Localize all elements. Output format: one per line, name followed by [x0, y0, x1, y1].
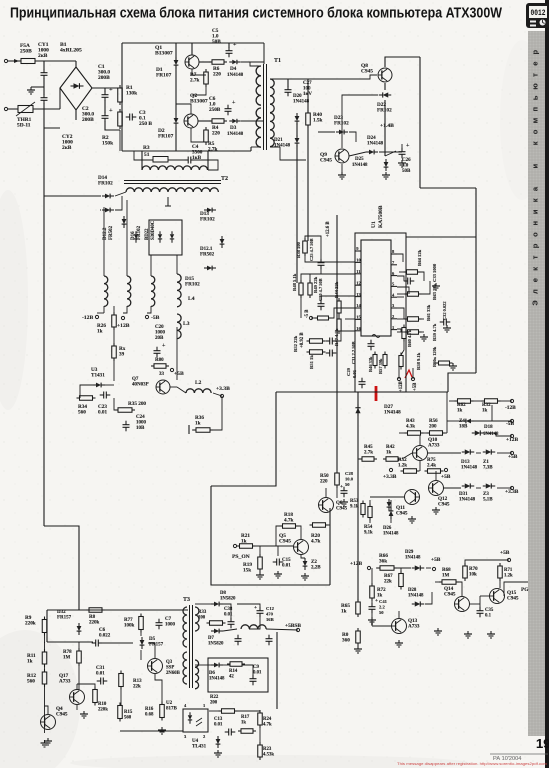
svg-text:817В: 817В [166, 707, 178, 712]
svg-text:R46 33k: R46 33k [368, 356, 373, 372]
svg-text:100: 100 [198, 616, 206, 621]
svg-text:н: н [531, 221, 540, 226]
svg-text:40N03Р: 40N03Р [132, 383, 149, 388]
svg-text:250 В: 250 В [139, 121, 152, 127]
svg-text:+0.92 В: +0.92 В [300, 332, 305, 348]
svg-text:А733: А733 [408, 624, 420, 630]
svg-text:130k: 130k [126, 91, 137, 97]
svg-text:R58 9.1k: R58 9.1k [416, 352, 421, 370]
svg-text:0.01: 0.01 [253, 671, 262, 676]
svg-text:360: 360 [342, 638, 350, 644]
svg-text:+: + [254, 605, 257, 611]
svg-text:51: 51 [144, 152, 150, 158]
svg-text:р: р [531, 243, 540, 248]
svg-text:R70: R70 [469, 567, 478, 572]
svg-text:о: о [531, 129, 540, 134]
svg-text:C38: C38 [224, 607, 233, 612]
svg-text:-5В: -5В [151, 315, 160, 321]
svg-text:2.7k: 2.7k [364, 451, 373, 456]
svg-text:ь: ь [531, 95, 540, 100]
svg-text:L2: L2 [195, 380, 202, 386]
svg-text:200: 200 [210, 701, 218, 706]
svg-text:1N4148: 1N4148 [367, 142, 384, 147]
svg-text:11: 11 [356, 269, 361, 274]
svg-text:560: 560 [78, 410, 86, 416]
svg-text:+12В: +12В [350, 561, 362, 567]
svg-text:D25: D25 [355, 157, 364, 162]
svg-text:R53: R53 [350, 499, 359, 504]
svg-text:1N4148: 1N4148 [408, 594, 424, 599]
svg-text:1N4148: 1N4148 [405, 556, 421, 561]
svg-text:4.7k: 4.7k [263, 723, 272, 728]
svg-text:-12В: -12В [505, 405, 516, 411]
svg-text:1k: 1k [241, 721, 246, 726]
svg-text:50: 50 [345, 482, 350, 487]
svg-text:220: 220 [320, 480, 328, 485]
svg-text:R60 4.7k: R60 4.7k [407, 329, 412, 347]
svg-text:R15: R15 [124, 710, 133, 715]
svg-text:0.01: 0.01 [96, 672, 105, 677]
svg-text:С945: С945 [336, 507, 348, 512]
svg-text:1k: 1k [482, 409, 488, 414]
svg-text:C31 2.2 50В: C31 2.2 50В [351, 341, 356, 364]
svg-text:R33: R33 [198, 610, 207, 615]
svg-text:R64 12k: R64 12k [417, 249, 422, 266]
svg-text:D7: D7 [208, 636, 214, 641]
svg-text:+: + [406, 143, 410, 149]
svg-text:+: + [109, 107, 113, 114]
svg-text:9,1k: 9,1k [364, 531, 373, 536]
svg-text:1N4148: 1N4148 [461, 466, 478, 471]
svg-text:1.5k: 1.5k [313, 118, 322, 124]
svg-text:2.4k: 2.4k [427, 464, 436, 469]
svg-text:+: + [375, 598, 378, 604]
svg-text:560: 560 [124, 716, 132, 721]
svg-text:0.01: 0.01 [282, 564, 291, 569]
svg-text:12: 12 [356, 280, 361, 285]
svg-text:1k: 1k [341, 609, 347, 615]
svg-text:Т1431: Т1431 [91, 373, 105, 379]
svg-text:D3: D3 [230, 125, 237, 131]
svg-text:D18: D18 [484, 425, 493, 430]
svg-text:и: и [531, 164, 540, 169]
svg-text:С945: С945 [444, 592, 456, 598]
svg-text:0.022: 0.022 [99, 634, 111, 639]
svg-text:D6: D6 [209, 671, 215, 676]
svg-text:+3.3В: +3.3В [216, 386, 230, 392]
svg-text:е: е [531, 62, 540, 66]
svg-text:R51 1k: R51 1k [309, 355, 314, 369]
svg-text:15: 15 [356, 315, 361, 320]
svg-text:Z1: Z1 [483, 460, 489, 465]
svg-text:R42: R42 [386, 445, 395, 450]
svg-text:А733: А733 [428, 443, 440, 449]
svg-text:16: 16 [356, 326, 361, 331]
svg-text:+12.6 В: +12.6 В [326, 221, 331, 237]
svg-text:FR107: FR107 [156, 73, 172, 79]
svg-text:R3: R3 [143, 145, 150, 151]
svg-text:+: + [109, 86, 113, 93]
svg-text:0.1: 0.1 [485, 614, 492, 619]
svg-text:220: 220 [213, 72, 221, 78]
svg-text:C26: C26 [402, 158, 411, 163]
svg-text:C28: C28 [345, 471, 354, 476]
svg-text:В13007: В13007 [190, 99, 208, 105]
svg-text:13: 13 [356, 292, 361, 297]
svg-text:А733: А733 [59, 679, 71, 685]
svg-text:R80: R80 [155, 358, 164, 363]
svg-text:20В: 20В [155, 336, 164, 341]
svg-text:42: 42 [229, 675, 234, 680]
svg-text:FR502: FR502 [109, 225, 114, 240]
svg-text:C33 1000: C33 1000 [432, 263, 437, 282]
svg-text:4xRL205: 4xRL205 [60, 48, 82, 54]
svg-text:Q7: Q7 [132, 377, 139, 382]
svg-text:100: 100 [303, 87, 311, 92]
svg-text:R14: R14 [229, 669, 238, 674]
svg-text:1N4148: 1N4148 [293, 100, 310, 105]
svg-text:7,3В: 7,3В [483, 466, 493, 471]
svg-text:R71: R71 [504, 568, 513, 573]
svg-text:D31: D31 [459, 492, 468, 497]
svg-text:R50: R50 [320, 474, 329, 479]
svg-text:200В: 200В [98, 75, 110, 81]
svg-text:R17: R17 [241, 715, 250, 720]
svg-text:1k: 1k [386, 451, 392, 456]
svg-text:1k: 1k [97, 329, 103, 335]
svg-text:Т3: Т3 [183, 597, 190, 603]
svg-text:ТL431: ТL431 [192, 745, 207, 750]
svg-text:Z3: Z3 [483, 492, 489, 497]
svg-text:4.7k: 4.7k [311, 539, 320, 545]
svg-text:220k: 220k [98, 708, 108, 713]
svg-text:R59 4.7k: R59 4.7k [432, 323, 437, 341]
svg-text:РG: РG [521, 587, 529, 593]
svg-text:FR102: FR102 [200, 217, 215, 223]
svg-text:+5В: +5В [413, 382, 418, 391]
svg-text:C15: C15 [282, 558, 291, 563]
svg-text:+: + [233, 42, 237, 48]
svg-text:е: е [531, 278, 540, 282]
svg-text:4.53k: 4.53k [263, 753, 274, 758]
svg-text:R23: R23 [263, 747, 272, 752]
svg-text:S30D40C: S30D40C [151, 220, 156, 240]
svg-text:+5В: +5В [174, 371, 184, 377]
svg-text:R38 100: R38 100 [296, 241, 301, 258]
svg-text:-5 В: -5 В [305, 309, 310, 318]
svg-text:0012: 0012 [531, 9, 546, 18]
svg-text:+12В: +12В [117, 323, 130, 329]
svg-text:1N4148: 1N4148 [209, 677, 225, 682]
svg-text:2.7k: 2.7k [208, 147, 217, 153]
svg-text:1N4148: 1N4148 [459, 498, 476, 503]
svg-text:16В: 16В [266, 617, 274, 622]
svg-text:R72: R72 [377, 588, 386, 593]
svg-text:1k: 1k [195, 421, 201, 427]
svg-text:+: + [340, 484, 343, 490]
svg-text:560: 560 [27, 679, 35, 685]
svg-text:т: т [531, 73, 540, 77]
svg-text:1.2k: 1.2k [398, 464, 407, 469]
svg-text:1кВ: 1кВ [192, 155, 202, 161]
svg-text:C9: C9 [253, 665, 259, 670]
svg-text:R61 33k: R61 33k [426, 304, 431, 321]
svg-text:С945: С945 [320, 158, 332, 164]
svg-text:C30 4.7 50В: C30 4.7 50В [318, 278, 323, 301]
svg-text:1000: 1000 [165, 623, 176, 628]
svg-text:T1: T1 [274, 58, 281, 64]
svg-text:R35 200: R35 200 [128, 401, 146, 407]
svg-text:T2: T2 [221, 176, 228, 182]
svg-text:R10: R10 [98, 702, 107, 707]
svg-text:+5ВSB: +5ВSB [285, 623, 301, 629]
svg-text:+: + [162, 343, 166, 349]
svg-text:1.0: 1.0 [402, 164, 409, 169]
svg-text:R43: R43 [406, 419, 415, 424]
svg-text:0.01: 0.01 [98, 410, 107, 416]
svg-text:FR107: FR107 [158, 134, 174, 140]
svg-text:1N5820: 1N5820 [208, 642, 224, 647]
svg-text:R78: R78 [63, 650, 72, 655]
svg-text:10В: 10В [136, 426, 145, 431]
svg-text:FR102: FR102 [98, 181, 113, 187]
svg-text:L4: L4 [188, 296, 195, 302]
svg-text:C29: C29 [346, 367, 351, 376]
svg-text:C25 4.7 50В: C25 4.7 50В [309, 238, 314, 261]
svg-text:SSР: SSР [166, 666, 174, 671]
svg-text:С945: С945 [56, 712, 68, 718]
svg-text:250В: 250В [209, 107, 221, 113]
svg-text:С945: С945 [361, 69, 373, 75]
svg-text:D29: D29 [405, 550, 414, 555]
svg-text:220k: 220k [89, 621, 100, 626]
svg-text:+5В: +5В [431, 557, 441, 563]
svg-text:Q3: Q3 [166, 660, 173, 665]
svg-text:150k: 150k [102, 141, 113, 147]
svg-text:200В: 200В [82, 117, 94, 123]
svg-text:22k: 22k [133, 685, 141, 690]
svg-text:C31: C31 [96, 666, 105, 671]
svg-text:1k: 1k [27, 659, 33, 665]
svg-text:ю: ю [531, 83, 540, 90]
svg-text:1N5820: 1N5820 [220, 597, 236, 602]
svg-text:22k: 22k [384, 580, 392, 585]
svg-text:C20: C20 [155, 325, 164, 330]
svg-text:U1: U1 [371, 221, 377, 228]
svg-text:2кВ: 2кВ [38, 53, 48, 59]
svg-text:50В: 50В [212, 39, 221, 45]
svg-text:2.7k: 2.7k [190, 78, 199, 84]
svg-text:1М: 1М [63, 656, 71, 661]
svg-text:-12В: -12В [82, 315, 93, 321]
svg-text:D4: D4 [230, 66, 237, 72]
svg-text:10.0: 10.0 [345, 477, 354, 482]
svg-text:R54: R54 [364, 525, 373, 530]
svg-text:+5В: +5В [441, 474, 451, 480]
svg-text:D32: D32 [57, 610, 66, 615]
svg-text:14: 14 [356, 303, 361, 308]
svg-text:C12: C12 [266, 606, 275, 611]
svg-text:33: 33 [159, 372, 165, 377]
svg-text:к: к [531, 267, 540, 271]
svg-text:This message disappears after: This message disappears after registrati… [397, 762, 547, 766]
svg-text:C13: C13 [214, 717, 223, 722]
svg-text:1k: 1k [241, 539, 247, 545]
svg-text:D20: D20 [293, 94, 302, 99]
svg-text:Э: Э [531, 300, 540, 306]
svg-text:R16: R16 [145, 707, 154, 712]
svg-text:+5В: +5В [500, 550, 510, 556]
svg-text:1k: 1k [457, 409, 463, 414]
svg-text:9.1k: 9.1k [350, 505, 359, 510]
svg-text:R22: R22 [210, 695, 219, 700]
svg-text:19: 19 [536, 736, 549, 751]
svg-text:R45: R45 [364, 445, 373, 450]
svg-text:м: м [531, 117, 540, 123]
svg-text:R75: R75 [427, 458, 436, 463]
svg-text:220k: 220k [25, 621, 36, 627]
svg-text:+3.3В: +3.3В [383, 474, 397, 480]
svg-text:5D-11: 5D-11 [17, 123, 31, 129]
svg-text:1М: 1М [442, 574, 450, 579]
svg-text:0.01: 0.01 [224, 613, 233, 618]
svg-text:R52 22k: R52 22k [293, 335, 298, 352]
svg-text:4.3k: 4.3k [406, 425, 415, 430]
svg-text:R67: R67 [384, 574, 393, 579]
svg-text:R24: R24 [263, 717, 272, 722]
svg-text:л: л [531, 289, 540, 294]
svg-text:1N4148: 1N4148 [227, 73, 244, 78]
svg-text:о: о [531, 232, 540, 237]
svg-text:L3: L3 [183, 321, 190, 327]
svg-text:2,2В: 2,2В [311, 566, 321, 571]
svg-text:PS_ON: PS_ON [232, 554, 250, 560]
svg-text:D12.1: D12.1 [200, 247, 213, 252]
svg-text:1N4148: 1N4148 [227, 132, 244, 137]
svg-text:5,1В: 5,1В [483, 498, 493, 503]
svg-text:п: п [531, 107, 540, 112]
svg-text:C32 0.022: C32 0.022 [442, 301, 447, 320]
svg-text:FR157: FR157 [57, 616, 72, 621]
svg-text:15k: 15k [243, 568, 251, 574]
svg-text:Принципиальная схема блока пит: Принципиальная схема блока питания систе… [10, 5, 503, 22]
svg-text:1.2k: 1.2k [504, 574, 513, 579]
svg-text:R56: R56 [429, 419, 438, 424]
svg-text:R13: R13 [133, 679, 142, 684]
svg-text:50В: 50В [402, 169, 411, 174]
svg-text:+: + [232, 100, 236, 106]
svg-text:KА7500В: KА7500В [378, 205, 384, 228]
svg-text:FR102: FR102 [185, 282, 200, 288]
svg-text:+1.4В: +1.4В [380, 123, 394, 129]
svg-text:470: 470 [266, 612, 274, 617]
svg-text:C7: C7 [165, 617, 172, 622]
svg-text:C41: C41 [379, 599, 388, 604]
svg-text:1N4148: 1N4148 [274, 144, 291, 149]
svg-text:и: и [531, 209, 540, 214]
svg-text:т: т [531, 255, 540, 259]
svg-text:36k: 36k [379, 559, 387, 565]
svg-text:R77: R77 [124, 618, 133, 623]
svg-text:39: 39 [119, 352, 125, 358]
svg-text:+12В: +12В [399, 380, 404, 392]
svg-text:250В: 250В [20, 49, 32, 55]
svg-text:1000: 1000 [155, 331, 166, 336]
svg-text:U4: U4 [192, 739, 199, 744]
svg-text:1N4148: 1N4148 [352, 163, 368, 168]
svg-text:FR502: FR502 [200, 253, 215, 258]
svg-text:D24: D24 [367, 136, 376, 141]
svg-text:С945: С945 [507, 596, 519, 602]
svg-text:U2: U2 [166, 701, 173, 706]
svg-text:1N4148: 1N4148 [384, 410, 401, 416]
svg-text:С945: С945 [438, 502, 450, 508]
svg-text:10k: 10k [469, 573, 477, 578]
svg-text:R8: R8 [89, 615, 96, 620]
svg-text:C6: C6 [99, 628, 106, 633]
svg-text:D21: D21 [274, 138, 283, 143]
svg-text:С945: С945 [279, 539, 291, 545]
svg-text:В13007: В13007 [155, 51, 173, 57]
svg-text:к: к [531, 141, 540, 145]
svg-text:к: к [531, 198, 540, 202]
svg-text:C35: C35 [485, 608, 494, 613]
svg-text:4.7k: 4.7k [284, 518, 293, 524]
svg-text:D26: D26 [383, 526, 392, 531]
svg-text:100k: 100k [124, 624, 135, 629]
svg-text:18В: 18В [459, 425, 468, 430]
svg-text:R60к 120k: R60к 120k [432, 346, 437, 367]
svg-text:0.68: 0.68 [145, 713, 154, 718]
svg-text:0.01: 0.01 [352, 369, 357, 378]
svg-text:R68: R68 [442, 568, 451, 573]
svg-text:С945: С945 [396, 511, 408, 517]
svg-text:2N60В: 2N60В [166, 671, 181, 676]
svg-text:0.01: 0.01 [214, 723, 223, 728]
svg-text:2кВ: 2кВ [62, 145, 72, 151]
svg-text:R57 39k: R57 39k [378, 358, 383, 374]
svg-text:R48 5.1k: R48 5.1k [292, 273, 297, 291]
svg-text:50: 50 [379, 610, 384, 615]
svg-text:220: 220 [212, 131, 220, 137]
svg-text:C24: C24 [136, 415, 145, 420]
svg-text:1000: 1000 [136, 421, 147, 426]
svg-text:D13: D13 [461, 460, 470, 465]
svg-text:10: 10 [356, 258, 361, 263]
svg-text:D8: D8 [220, 591, 226, 596]
svg-text:FR102: FR102 [137, 225, 142, 240]
svg-text:2.2: 2.2 [379, 605, 385, 610]
svg-text:р: р [531, 49, 540, 54]
svg-text:D5: D5 [149, 637, 156, 642]
svg-text:1N4148: 1N4148 [383, 532, 399, 537]
svg-text:Z2: Z2 [311, 560, 317, 565]
svg-text:D28: D28 [408, 588, 417, 593]
svg-text:200: 200 [429, 425, 437, 430]
